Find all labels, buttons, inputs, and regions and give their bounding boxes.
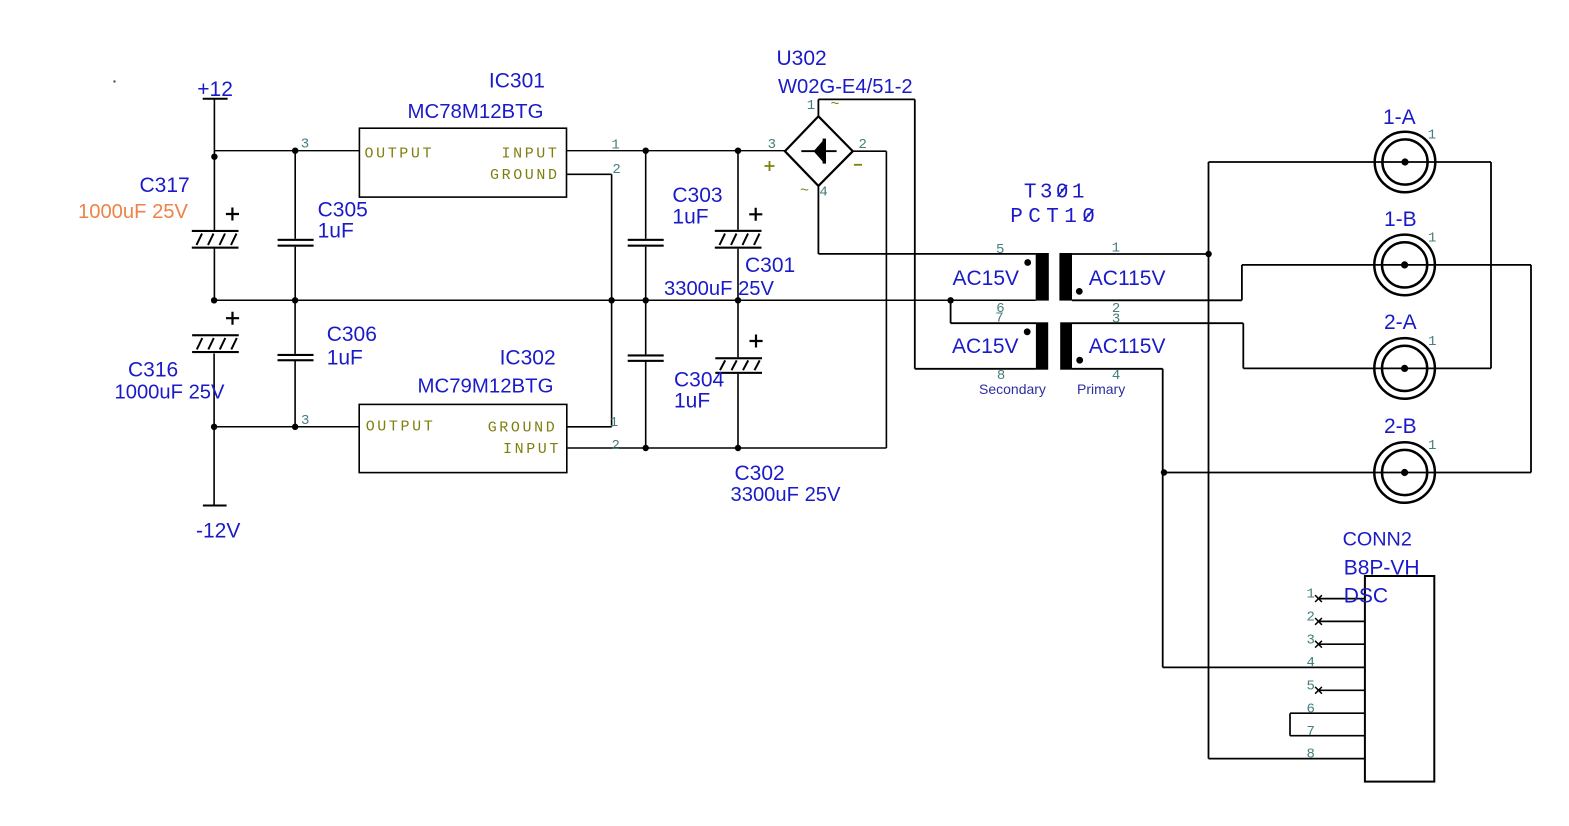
wire vertical bus to CONN2 pin 8 — [1209, 162, 1365, 759]
capacitor C304 (lower 1uF) — [628, 354, 664, 362]
svg-text:Secondary: Secondary — [979, 381, 1046, 397]
svg-text:2: 2 — [1307, 610, 1315, 626]
svg-text:3: 3 — [301, 137, 309, 153]
svg-text:U302: U302 — [777, 47, 827, 70]
svg-text:IC301: IC301 — [489, 70, 545, 93]
no-connect marks pins 1,2,3,5 — [1315, 595, 1322, 694]
wire ground rail jog to transformer pin 7 — [951, 300, 1036, 323]
wire IC302 GROUND pin 1 — [567, 300, 612, 427]
svg-text:8: 8 — [1307, 747, 1315, 763]
svg-text:C303: C303 — [672, 184, 722, 207]
svg-text:3: 3 — [301, 413, 309, 429]
slashes on zeros of T301 / PCT10 — [1058, 185, 1094, 221]
wire transformer pin 1 to node at x1208 — [1072, 253, 1209, 255]
wire C305 bottom lead — [294, 247, 296, 301]
svg-text:C317: C317 — [140, 174, 190, 197]
wire C301 leads — [737, 151, 739, 301]
svg-text:2: 2 — [612, 438, 620, 454]
svg-text:AC115V: AC115V — [1089, 335, 1166, 358]
svg-text:OUTPUT: OUTPUT — [365, 145, 435, 162]
bridge rectifier U302 diamond — [785, 116, 853, 186]
svg-text:MC79M12BTG: MC79M12BTG — [418, 375, 554, 397]
svg-text:2-A: 2-A — [1384, 311, 1417, 334]
svg-text:CONN2: CONN2 — [1343, 528, 1412, 550]
capacitor C305 — [278, 239, 314, 247]
wire 1-B horizontal and right vertical to 2-B — [1242, 265, 1531, 473]
svg-text:4: 4 — [1307, 655, 1315, 671]
svg-text:2: 2 — [859, 137, 867, 153]
wire C305 top lead — [294, 151, 296, 239]
transformer phase dots — [1024, 259, 1083, 364]
connector 1-A — [1375, 132, 1436, 193]
svg-text:AC15V: AC15V — [952, 335, 1019, 358]
svg-text:C306: C306 — [327, 323, 377, 346]
svg-text:~: ~ — [831, 96, 843, 113]
CONN2 pin 2 stub — [1319, 620, 1365, 622]
regulator IC301 box — [359, 128, 566, 197]
junction node pin1/bus — [1205, 251, 1211, 257]
CONN2 pin 3 stub — [1319, 643, 1365, 645]
svg-text:1: 1 — [1428, 334, 1436, 350]
svg-text:B8P-VH: B8P-VH — [1344, 557, 1420, 580]
wire C316 bottom lead to -12V — [213, 354, 215, 506]
svg-text:5: 5 — [1307, 679, 1315, 695]
wire C306 top lead — [294, 300, 296, 354]
bridge rectifier U302 diode — [801, 139, 836, 164]
wire IC301 GROUND pin 2 — [567, 174, 612, 300]
connector 2-A — [1374, 338, 1435, 399]
svg-text:INPUT: INPUT — [503, 441, 561, 458]
svg-text:1000uF 25V: 1000uF 25V — [78, 201, 189, 223]
svg-text:4: 4 — [819, 184, 827, 200]
connector 1-B — [1374, 235, 1435, 296]
svg-text:C302: C302 — [735, 462, 785, 485]
wire C317 bottom lead — [213, 249, 215, 301]
capacitor C317 — [192, 208, 239, 249]
wire 2-B horizontal — [1164, 472, 1531, 474]
stray dot — [113, 80, 115, 82]
capacitor C301 — [715, 208, 763, 249]
junction node pin4/2-B — [1161, 469, 1167, 475]
wire C306 bottom lead — [294, 360, 296, 427]
capacitor C302 (lower electrolytic) — [715, 335, 762, 374]
svg-text:4: 4 — [1112, 368, 1120, 384]
svg-text:1-B: 1-B — [1384, 208, 1417, 231]
svg-text:5: 5 — [996, 242, 1004, 258]
svg-text:1000uF 25V: 1000uF 25V — [115, 381, 226, 403]
svg-text:INPUT: INPUT — [502, 145, 560, 162]
svg-text:1: 1 — [1428, 231, 1436, 247]
wire bottom rail (IC302 INPUT to bridge pin 2) — [567, 447, 887, 449]
power symbol +12 bar — [203, 98, 228, 100]
svg-text:DSC: DSC — [1344, 585, 1388, 608]
svg-text:+12: +12 — [197, 78, 233, 101]
connector 2-B — [1374, 442, 1435, 503]
wire bridge pin 2 to bottom rail — [853, 151, 887, 448]
svg-text:3: 3 — [1307, 632, 1315, 648]
svg-text:1-A: 1-A — [1383, 106, 1416, 129]
wire 1-A horizontal — [1209, 161, 1492, 163]
wire top rail left (+12 to IC301 OUTPUT) — [214, 150, 359, 152]
svg-text:OUTPUT: OUTPUT — [366, 419, 436, 436]
svg-text:2-B: 2-B — [1384, 415, 1417, 438]
wire transformer pin 2 up to 1-B — [1072, 265, 1242, 300]
svg-text:1: 1 — [1428, 128, 1436, 144]
svg-text:GROUND: GROUND — [490, 167, 560, 184]
svg-text:1uF: 1uF — [318, 220, 354, 243]
svg-text:3300uF 25V: 3300uF 25V — [664, 278, 775, 300]
wire transformer pin 4 down to CONN2 pin 4 — [1072, 369, 1365, 668]
svg-text:AC15V: AC15V — [953, 267, 1020, 290]
U302 plus mark — [765, 161, 775, 171]
svg-text:MC78M12BTG: MC78M12BTG — [408, 101, 544, 123]
capacitor C303 — [628, 239, 664, 247]
svg-text:7: 7 — [1307, 724, 1315, 740]
svg-text:3300uF 25V: 3300uF 25V — [731, 484, 842, 506]
svg-text:C305: C305 — [318, 198, 368, 221]
svg-text:-12V: -12V — [196, 519, 240, 542]
transformer T301 secondary winding top (pins 5-6) — [1036, 253, 1049, 301]
wire bridge pin 4 to transformer pin 5 — [818, 186, 1036, 254]
transformer T301 primary winding bottom (pins 3-4) — [1060, 322, 1072, 369]
wire +12 vertical — [213, 99, 215, 231]
svg-text:1: 1 — [1428, 438, 1436, 454]
wire C302 leads (lower electrolytic) — [737, 300, 739, 448]
svg-text:C316: C316 — [128, 358, 178, 381]
svg-text:3: 3 — [1112, 311, 1120, 327]
svg-text:1: 1 — [610, 415, 618, 431]
svg-text:AC115V: AC115V — [1089, 267, 1166, 290]
svg-text:8: 8 — [997, 368, 1005, 384]
svg-text:1uF: 1uF — [327, 347, 363, 370]
wire 2-A horizontal and right vertical to 1-A — [1243, 162, 1491, 368]
U302 minus mark — [854, 164, 862, 166]
svg-text:6: 6 — [1307, 701, 1315, 717]
svg-text:1: 1 — [807, 98, 815, 114]
svg-text:T301: T301 — [1024, 182, 1088, 205]
CONN2 pin 1 stub — [1319, 598, 1365, 600]
svg-text:GROUND: GROUND — [488, 419, 558, 436]
wire C304 leads (1uF lower ceramic) — [645, 300, 647, 448]
svg-text:7: 7 — [995, 310, 1003, 326]
transformer T301 primary winding top (pins 1-2) — [1059, 253, 1072, 301]
CONN2 pins 6-7 loop — [1290, 713, 1365, 736]
svg-text:1uF: 1uF — [672, 205, 708, 228]
svg-text:1: 1 — [1307, 587, 1315, 603]
svg-text:2: 2 — [612, 162, 620, 178]
CONN2 pin 5 stub — [1319, 689, 1365, 691]
svg-text:1: 1 — [611, 138, 619, 154]
svg-text:1: 1 — [1112, 241, 1120, 257]
capacitor C316 — [192, 312, 239, 353]
svg-text:W02G-E4/51-2: W02G-E4/51-2 — [778, 76, 913, 98]
regulator IC302 box — [359, 404, 567, 472]
svg-text:3: 3 — [768, 137, 776, 153]
svg-text:1uF: 1uF — [674, 390, 710, 413]
wire mid ground rail — [214, 299, 1036, 301]
power symbol -12V bar — [203, 505, 227, 507]
wire bridge pin 1 to transformer pin 8 — [818, 99, 1036, 368]
wire lower-left rail (to IC302 OUTPUT) — [214, 426, 359, 428]
svg-text:IC302: IC302 — [500, 347, 556, 370]
svg-text:C304: C304 — [674, 369, 725, 392]
capacitor C306 — [278, 354, 314, 361]
svg-text:C301: C301 — [745, 254, 795, 277]
wire top rail right (IC301 INPUT to bridge pin 3) — [567, 150, 785, 152]
junction node dots — [211, 148, 954, 452]
wire transformer pin 3 down to 2-A — [1072, 323, 1243, 368]
svg-text:~: ~ — [800, 183, 812, 200]
transformer T301 secondary winding bottom (pins 7-8) — [1036, 322, 1048, 369]
wire C303 leads — [645, 151, 647, 301]
connector CONN2 box — [1365, 576, 1434, 782]
